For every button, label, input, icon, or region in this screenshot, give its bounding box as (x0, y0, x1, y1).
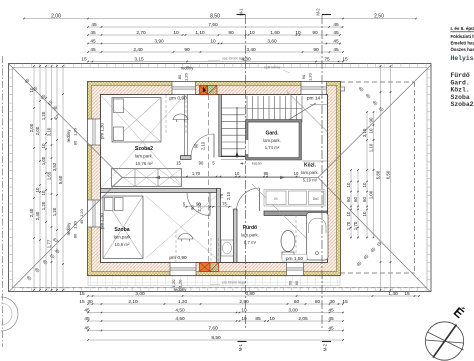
hip TL (9, 64, 123, 178)
svg-text:pm 0,90: pm 0,90 (169, 96, 187, 102)
svg-text:3,80: 3,80 (245, 291, 255, 297)
window W5 bottom (Szoba) (170, 263, 196, 276)
svg-text:M-2: M-2 (316, 8, 321, 16)
svg-text:60: 60 (294, 280, 299, 285)
svg-text:Fürdő: Fürdő (243, 225, 257, 231)
svg-text:45: 45 (90, 47, 96, 53)
svg-text:45: 45 (328, 307, 334, 313)
svg-text:90: 90 (313, 47, 319, 53)
svg-text:15: 15 (81, 56, 87, 62)
door D2 ->Szoba (209, 193, 211, 216)
ceiling lamp Szoba (178, 234, 194, 239)
svg-text:pm 0,90: pm 0,90 (169, 255, 187, 261)
section line M-2 (321, 15, 323, 330)
hip BL (9, 178, 122, 292)
svg-text:80: 80 (177, 74, 182, 79)
svg-text:60: 60 (288, 280, 293, 285)
svg-text:BaC: BaC (313, 197, 320, 201)
svg-text:5,80: 5,80 (375, 170, 380, 179)
svg-text:10: 10 (346, 211, 351, 216)
svg-text:45: 45 (328, 325, 334, 331)
svg-text:I. és II. épületre vonatk.: I. és II. épületre vonatk. (451, 26, 474, 31)
svg-text:45: 45 (333, 22, 339, 28)
room diagonal Szoba2 (101, 96, 184, 189)
svg-text:1,20: 1,20 (73, 220, 78, 229)
svg-text:10: 10 (235, 171, 240, 176)
svg-text:15: 15 (404, 291, 410, 297)
svg-text:M: M (274, 197, 277, 201)
svg-text:90: 90 (228, 30, 234, 36)
svg-text:pm 1,30: pm 1,30 (100, 213, 105, 229)
left dimension chains (33, 66, 35, 290)
terrace tile band below south wall (88, 276, 340, 286)
svg-text:10: 10 (249, 30, 255, 36)
bed Szoba (103, 196, 143, 259)
svg-text:10: 10 (362, 211, 367, 216)
svg-text:10: 10 (368, 128, 373, 133)
svg-text:90: 90 (194, 143, 199, 148)
svg-text:2,00: 2,00 (35, 126, 40, 135)
svg-text:2,10: 2,10 (201, 141, 206, 150)
door D3 ->Fürdő (259, 188, 261, 211)
svg-text:3,52: 3,52 (52, 162, 57, 171)
svg-text:10: 10 (362, 182, 367, 187)
svg-text:60: 60 (353, 197, 358, 202)
svg-text:15: 15 (79, 299, 85, 305)
svg-text:Közl.: Közl. (304, 163, 317, 169)
window W1 top (Szoba2) (172, 82, 196, 95)
svg-text:1,00: 1,00 (41, 156, 46, 165)
Gard. closet walls (246, 120, 302, 161)
svg-text:3,90: 3,90 (154, 38, 164, 44)
svg-text:redőny: redőny (66, 222, 71, 236)
svg-text:Gard.: Gard. (451, 79, 470, 86)
svg-text:10: 10 (41, 143, 46, 148)
svg-text:Helyiség: Helyiség (451, 55, 474, 62)
window W2 top-right (301, 82, 327, 95)
svg-text:15: 15 (342, 56, 348, 62)
svg-text:4,50: 4,50 (175, 307, 185, 313)
svg-text:2,05: 2,05 (298, 316, 308, 322)
toilet (281, 231, 295, 252)
svg-text:3,00: 3,00 (288, 307, 298, 313)
svg-text:90: 90 (199, 161, 204, 166)
svg-text:1,77: 1,77 (46, 239, 51, 248)
svg-text:1,70: 1,70 (346, 221, 351, 230)
svg-text:Gard.: Gard. (265, 131, 279, 137)
diagonal Közl (287, 92, 328, 133)
bathtub (307, 213, 329, 261)
exterior vent box (341, 87, 345, 91)
svg-text:3,10: 3,10 (362, 128, 367, 137)
svg-text:10: 10 (269, 316, 275, 322)
svg-text:1,20: 1,20 (73, 127, 78, 136)
svg-text:redőny: redőny (66, 129, 71, 143)
svg-text:7,60: 7,60 (208, 325, 218, 331)
svg-text:Szoba: Szoba (114, 227, 129, 233)
svg-text:80: 80 (73, 233, 78, 238)
svg-text:85: 85 (264, 171, 269, 176)
svg-text:45: 45 (90, 30, 96, 36)
svg-text:10: 10 (241, 307, 247, 313)
window W6 bottom (Fürdő) (287, 263, 304, 276)
svg-text:90: 90 (312, 30, 318, 36)
svg-text:5,60: 5,60 (58, 175, 63, 184)
svg-text:Szoba2: Szoba2 (451, 101, 474, 108)
svg-text:10: 10 (173, 30, 179, 36)
svg-text:Emeleti hasznos alapter.: Emeleti hasznos alapter. (451, 41, 474, 46)
tree symbol bottom-left (1, 297, 18, 331)
svg-text:1,20: 1,20 (79, 208, 84, 217)
svg-text:lam.park.: lam.park. (241, 233, 259, 238)
svg-text:3,40: 3,40 (246, 47, 256, 53)
svg-text:redőny: redőny (181, 66, 195, 71)
eaves tick band (9, 64, 432, 292)
svg-text:60: 60 (362, 197, 367, 202)
svg-text:1,20: 1,20 (41, 111, 46, 120)
svg-text:7,60: 7,60 (208, 22, 218, 28)
svg-text:5,19 m²: 5,19 m² (303, 178, 318, 183)
svg-text:90: 90 (184, 47, 190, 53)
landing edge dark (221, 155, 248, 157)
stair well wall (219, 95, 222, 157)
svg-text:2,90: 2,90 (239, 299, 249, 305)
chimney bottom orange (200, 263, 211, 272)
svg-text:4,50: 4,50 (175, 316, 185, 322)
svg-text:kazán: kazán (252, 162, 262, 166)
svg-text:1,20: 1,20 (178, 299, 188, 305)
svg-text:1,20: 1,20 (171, 279, 176, 288)
eaves dashed line bottom (20, 287, 420, 289)
svg-text:45: 45 (79, 219, 84, 224)
svg-text:lam.park.: lam.park. (135, 154, 153, 159)
svg-text:3,00: 3,00 (135, 291, 145, 297)
washer/dryer counter (264, 190, 325, 207)
svg-text:1,74 m²: 1,74 m² (265, 145, 280, 150)
svg-text:45: 45 (328, 316, 334, 322)
svg-text:2,00: 2,00 (51, 13, 61, 19)
svg-text:1,70: 1,70 (353, 221, 358, 230)
exterior walls: insulation ring (88, 82, 341, 276)
bottom dimension chains (88, 295, 419, 297)
svg-text:60: 60 (294, 299, 300, 305)
ridge (122, 177, 318, 179)
svg-text:10: 10 (41, 190, 46, 195)
svg-text:2,10: 2,10 (226, 191, 231, 200)
svg-text:10,76 m²: 10,76 m² (135, 161, 153, 166)
svg-text:10: 10 (294, 171, 299, 176)
svg-text:2,70: 2,70 (136, 30, 146, 36)
svg-text:45: 45 (91, 22, 97, 28)
svg-text:45: 45 (84, 316, 90, 322)
door D1 Szoba2->hall (213, 134, 215, 158)
shaft top green (208, 86, 218, 95)
washbasin corridor (221, 240, 234, 256)
svg-text:75: 75 (324, 56, 330, 62)
right dimension chains (350, 170, 352, 238)
svg-text:Összes hasznos alapter.: Összes hasznos alapter. (451, 47, 474, 52)
svg-text:em.tömör legja: em.tömör legja (222, 281, 246, 285)
svg-text:80: 80 (73, 140, 78, 145)
svg-text:80: 80 (315, 299, 321, 305)
svg-text:10,8 m²: 10,8 m² (115, 242, 130, 247)
svg-text:Szoba: Szoba (451, 94, 470, 101)
staircase flight vertical (221, 108, 246, 149)
svg-text:4,30: 4,30 (241, 56, 251, 62)
window W3 left (Szoba2) (88, 119, 101, 145)
exterior walls: brick hatch ring (92, 86, 337, 272)
svg-text:75: 75 (219, 193, 224, 198)
svg-text:1,20: 1,20 (308, 72, 313, 81)
svg-text:Fürdő: Fürdő (451, 72, 470, 79)
svg-text:45: 45 (84, 307, 90, 313)
room diagonal Szoba (146, 196, 216, 258)
svg-text:3,15: 3,15 (134, 56, 144, 62)
ceiling lamp Szoba2 (173, 114, 189, 119)
svg-text:10: 10 (35, 187, 40, 192)
svg-text:3,10: 3,10 (46, 127, 51, 136)
svg-text:1,20: 1,20 (184, 72, 189, 81)
svg-text:1,20: 1,20 (52, 207, 57, 216)
wardrobe Szoba2 (112, 169, 182, 187)
svg-text:8,50: 8,50 (210, 13, 220, 19)
svg-text:pm 14: pm 14 (307, 96, 321, 102)
svg-text:90: 90 (368, 117, 373, 122)
svg-text:85: 85 (255, 316, 261, 322)
section line M-1 (245, 15, 247, 330)
svg-text:2,10: 2,10 (197, 203, 202, 212)
svg-text:1,20: 1,20 (41, 201, 46, 210)
svg-text:75: 75 (222, 201, 227, 206)
svg-text:8,50: 8,50 (211, 335, 221, 341)
svg-text:1,20: 1,20 (178, 279, 183, 288)
svg-text:1,10: 1,10 (195, 30, 205, 36)
svg-text:1,70: 1,70 (192, 171, 201, 176)
chimney flue dashed axis (208, 95, 210, 263)
svg-text:2,40: 2,40 (29, 208, 34, 217)
svg-text:10: 10 (295, 30, 301, 36)
svg-text:2,10: 2,10 (128, 299, 138, 305)
svg-text:90: 90 (190, 205, 195, 210)
partition Szoba2/Szoba horizontal (101, 189, 217, 193)
svg-text:lam.park.: lam.park. (301, 170, 319, 175)
svg-text:45: 45 (333, 38, 339, 44)
Gard door gap (245, 140, 248, 154)
wall stub + door head Szoba2 (181, 156, 192, 160)
svg-text:1,10: 1,10 (368, 143, 373, 152)
bed Szoba2 (112, 98, 161, 143)
svg-text:1,00: 1,00 (368, 190, 373, 199)
svg-text:1,65: 1,65 (46, 171, 51, 180)
svg-text:10: 10 (346, 182, 351, 187)
svg-text:Földszinti hasznos alapter.: Földszinti hasznos alapter. (451, 34, 474, 39)
chimney top orange (200, 86, 208, 95)
svg-text:10: 10 (210, 38, 216, 44)
property boundary dash-dot left (2, 56, 4, 347)
svg-text:45: 45 (84, 325, 90, 331)
svg-text:10: 10 (241, 316, 247, 322)
stair walk line with arrow (236, 107, 238, 158)
landing edge lines (221, 159, 244, 161)
svg-text:15: 15 (342, 299, 348, 305)
svg-text:1,60: 1,60 (270, 30, 280, 36)
svg-text:Közl.: Közl. (451, 87, 470, 94)
stair break line (285, 103, 316, 122)
svg-text:30: 30 (87, 299, 93, 305)
svg-text:2,40: 2,40 (35, 211, 40, 220)
svg-text:pm 1,30: pm 1,30 (100, 123, 105, 139)
window W4 left (Szoba) (88, 200, 101, 227)
svg-text:2,00: 2,00 (29, 123, 34, 132)
Közl/Fürdő wall horizontal (264, 211, 328, 216)
svg-text:lam.park: lam.park (114, 235, 132, 240)
svg-text:30: 30 (329, 299, 335, 305)
wall outlines (88, 82, 341, 276)
roof eaves outline (9, 64, 432, 292)
svg-text:45: 45 (333, 30, 339, 36)
svg-text:1,40: 1,40 (388, 291, 398, 297)
corridor/Fürdő wall vertical (234, 209, 238, 263)
hip TR (318, 65, 431, 178)
svg-text:2,50: 2,50 (374, 13, 384, 19)
svg-text:lam.park.: lam.park. (263, 138, 281, 143)
svg-text:6,50: 6,50 (385, 170, 390, 179)
svg-text:Szoba2: Szoba2 (135, 146, 153, 152)
partition Szoba2/hall vertical thin (185, 95, 188, 156)
svg-text:15: 15 (79, 291, 85, 297)
svg-text:60: 60 (346, 197, 351, 202)
svg-text:45: 45 (333, 47, 339, 53)
svg-text:90: 90 (301, 74, 306, 79)
shaft bottom green (210, 263, 219, 272)
partition Szoba/corridor vertical (217, 189, 221, 263)
top dimension chains (24, 18, 416, 20)
svg-text:split klíma: split klíma (264, 66, 280, 70)
svg-text:M-2: M-2 (323, 343, 328, 351)
diagonal Fürdő (252, 184, 328, 260)
window projection dashes (165, 95, 167, 135)
svg-text:3,60: 3,60 (267, 38, 277, 44)
svg-text:2,40: 2,40 (133, 47, 143, 53)
svg-text:pm 1,50: pm 1,50 (286, 256, 304, 262)
lower storey dashed outline (414, 82, 416, 273)
north compass (425, 322, 463, 360)
hip BR (318, 178, 430, 292)
svg-text:15: 15 (176, 161, 181, 166)
svg-text:M-1: M-1 (238, 343, 243, 351)
svg-text:45: 45 (90, 38, 96, 44)
svg-text:M-1: M-1 (239, 8, 244, 16)
